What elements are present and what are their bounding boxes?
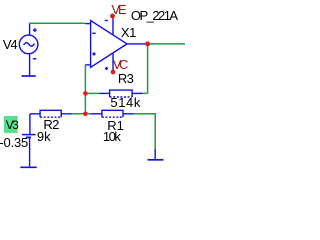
label V4 — [3, 38, 17, 51]
node dot VC — [111, 70, 116, 75]
ground under V4 — [22, 75, 36, 77]
resistor R3 — [99, 90, 142, 97]
node dot R2/R1 junction — [83, 112, 88, 117]
label VC — [113, 58, 126, 71]
resistor R2 — [30, 110, 72, 134]
label R1 — [107, 119, 124, 132]
DC source V3 battery — [22, 135, 36, 167]
R2 right / R1 left row wires — [72, 113, 91, 115]
label 514k — [110, 96, 141, 109]
label X1 — [121, 26, 136, 39]
R3 row wires — [85, 92, 99, 94]
node dot R3 junction — [83, 91, 88, 96]
output node wires — [148, 43, 185, 45]
ground under R1 branch — [148, 159, 164, 161]
label OP_221A — [131, 9, 177, 22]
node dot output — [145, 41, 150, 46]
resistor R1 — [91, 110, 134, 117]
label R3 — [118, 72, 133, 85]
voltage source V4 — [19, 28, 38, 75]
ground under V3 — [20, 166, 37, 168]
net highlight box V3 — [4, 116, 18, 133]
label -0.35 — [0, 136, 28, 149]
op-amp X1 triangle — [85, 16, 147, 72]
R1 right wire to ground — [134, 114, 156, 149]
label V3 — [6, 119, 17, 132]
label 9k — [37, 130, 51, 143]
ground stub right — [154, 149, 156, 159]
label R2 — [43, 118, 58, 131]
label 10k — [103, 130, 119, 143]
node dot VE — [110, 14, 115, 19]
label VE — [111, 3, 124, 16]
non-inverting input wire down — [84, 65, 86, 114]
wire V4 top to op-amp inverting input — [29, 24, 31, 35]
